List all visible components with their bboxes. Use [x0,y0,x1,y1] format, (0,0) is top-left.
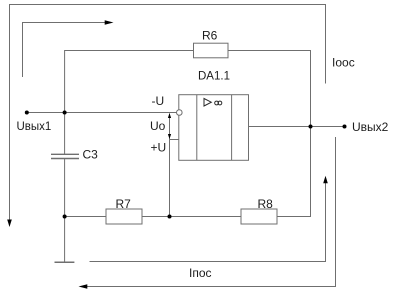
svg-text:Uo: Uo [150,119,166,133]
op-amp DA1.1 gain triangle symbol [204,99,211,107]
wire: net Uвых1 to inverting input of DA1.1 [27,112,177,114]
svg-text:Uвых1: Uвых1 [17,121,52,133]
node: junction input net / C3 / R6 branch [63,111,67,115]
wire: return from below Uвых2 along bottom with left arrow [87,137,336,287]
resistor R7 [106,209,142,224]
node: Uвых2 terminal dot [343,125,347,129]
wire: C3 top lead [64,113,66,155]
wire: non-inverting input lead down to R7/R8 net [170,140,179,217]
svg-text:C3: C3 [83,148,99,162]
resistor R8 [241,209,277,224]
svg-text:+U: +U [151,141,167,155]
wire: R6 right lead down to output node [228,51,311,127]
svg-text:R6: R6 [202,29,218,43]
svg-text:R7: R7 [116,197,132,211]
wire: outer Iooc feedback loop (left side, top, right drop) [10,5,326,222]
node: junction output / R6 / R8 [309,125,313,129]
svg-text:DA1.1: DA1.1 [198,71,230,83]
wire: bottom net from C3 branch through R7 to R8 [65,216,106,218]
op-amp DA1.1 internal dividers [196,95,198,161]
resistor R6 [194,43,229,58]
arrowhead: inner arrow pointing right [105,20,114,25]
svg-text:Iпос: Iпос [189,266,212,280]
wire: op-amp output to Uвых2 terminal [249,126,345,128]
node: Uвых1 terminal dot [25,111,29,115]
ground bar [55,261,75,263]
Uo measurement line with arrows between inputs [169,114,171,140]
arrowhead: Iпос loop pointing up [323,176,328,184]
arrowhead: Iooc loop pointing down at bottom-left [7,220,12,228]
svg-text:Iоос: Iоос [332,56,355,70]
arrowhead: bottom return pointing left [79,284,88,289]
svg-text:-U: -U [152,94,165,108]
node: junction C3 lead / R7 net [63,215,67,219]
wire: C3 bottom lead to ground [64,159,66,263]
capacitor C3 plates [51,153,79,155]
svg-text:Uвых2: Uвых2 [352,120,389,134]
wire: output node down to R8 right lead [277,127,311,217]
wire: Iпос loop from ground area right and up with arrow [90,183,326,262]
node: junction R7 / +U lead [168,215,172,219]
wire: inner direction arrow at top-left [23,23,106,78]
op-amp DA1.1 body [179,95,249,161]
svg-text:R8: R8 [258,197,274,211]
op-amp DA1.1 infinity symbol [215,101,219,105]
wire: branch up from input net to R6 [65,51,194,113]
op-amp DA1.1 inverting bubble [177,110,183,116]
